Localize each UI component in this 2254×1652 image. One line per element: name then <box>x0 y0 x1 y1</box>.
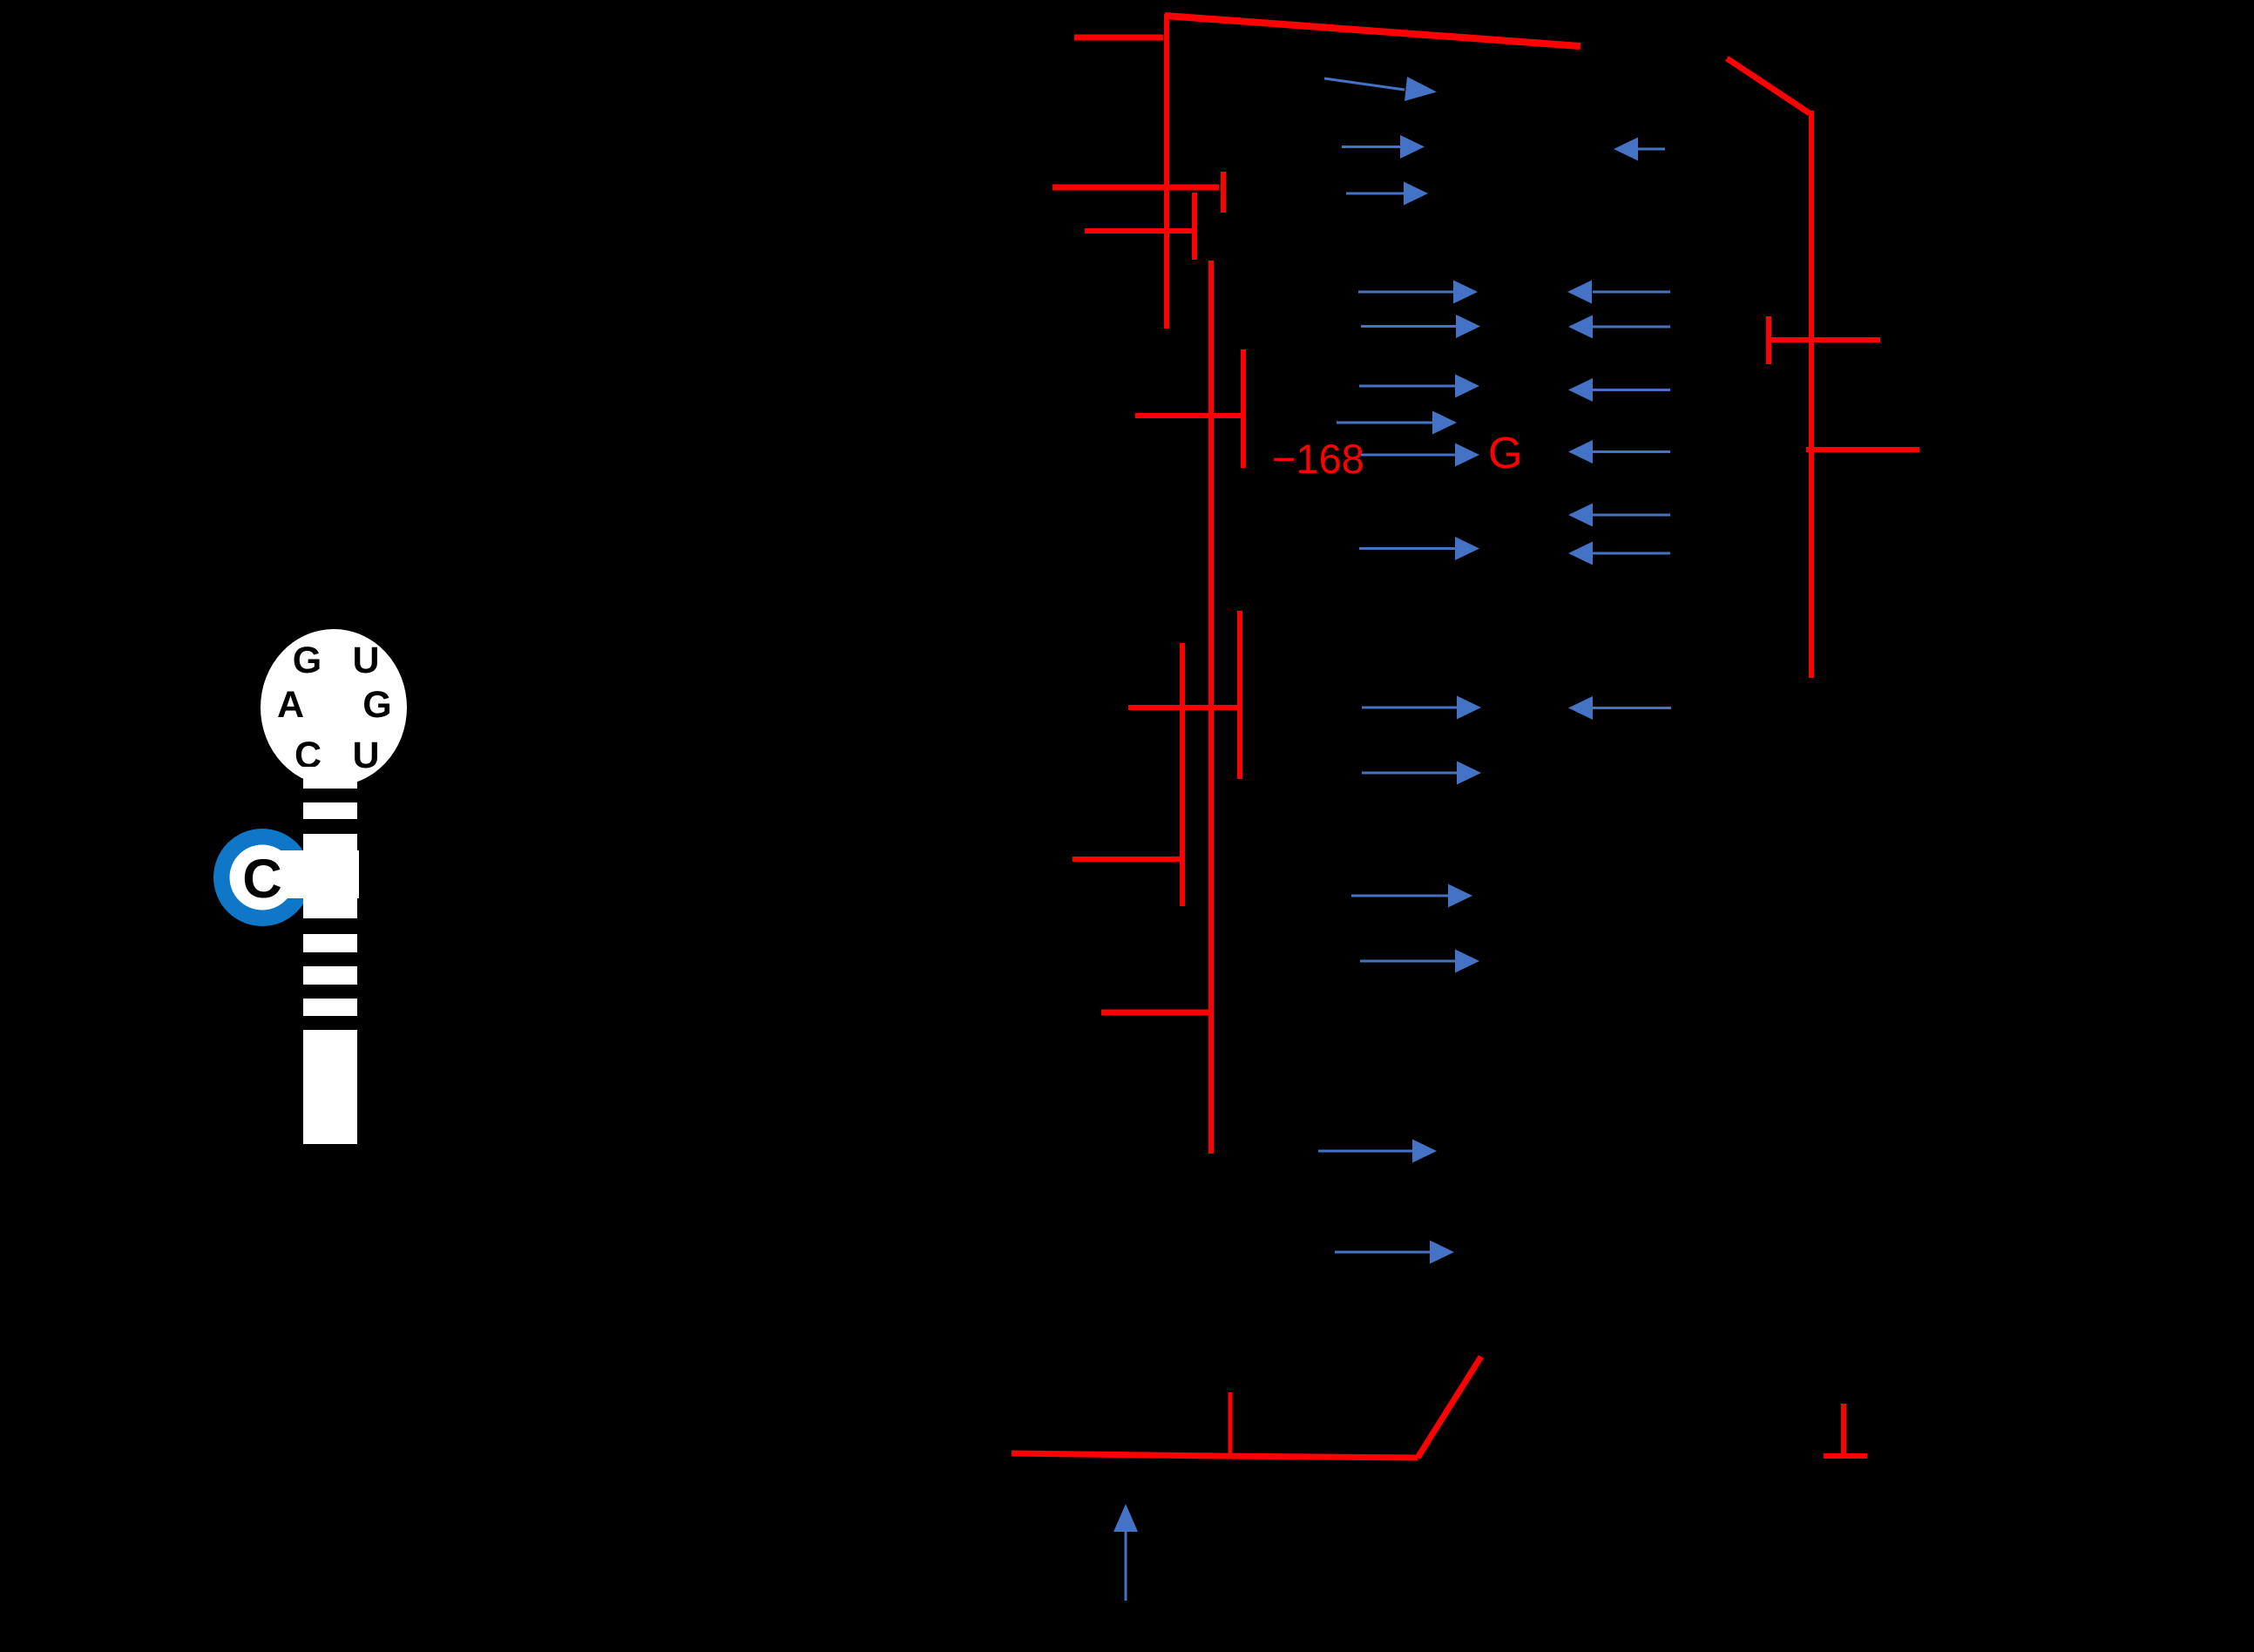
stem rung 4 <box>303 999 357 1016</box>
blue up arrow bottom <box>1113 1504 1138 1601</box>
blue right arrow row y168 <box>1342 135 1425 159</box>
svg-text:C: C <box>242 849 282 910</box>
blue right arrow row y629 <box>1359 537 1479 560</box>
blue left arrow row y375 <box>1568 315 1670 339</box>
blue right arrow row y1321 <box>1318 1140 1437 1163</box>
blue left arrow row y518 <box>1568 440 1670 464</box>
red horizontal crossing at -168 stem <box>1135 413 1244 418</box>
red long horizontal with end tick <box>1053 185 1219 191</box>
stem rung 3 <box>303 966 357 985</box>
blue right arrow row y522 (to G) <box>1361 443 1479 467</box>
red right tick of second vertical <box>1241 349 1246 468</box>
red right upper horizontal <box>1769 337 1880 342</box>
blue right arrow row y812 <box>1362 696 1481 720</box>
red right tick <box>1766 316 1771 364</box>
red horizontal below step <box>1085 228 1195 234</box>
red main vertical (5' side) <box>1164 14 1169 328</box>
ring inner white disc <box>230 845 295 911</box>
blue small left arrow top <box>1614 138 1665 161</box>
ring mouth white notch <box>261 850 359 898</box>
red top-left horizontal segment <box>1074 35 1163 41</box>
red right long vertical <box>1809 111 1814 678</box>
red right diagonal (3' side) <box>1727 58 1810 113</box>
svg-text:U: U <box>352 640 379 681</box>
blue right arrow row y443 <box>1359 375 1479 398</box>
red top slanted line <box>1165 16 1581 46</box>
blue left arrow row y591 <box>1568 504 1670 527</box>
red left tick (long) <box>1180 643 1185 906</box>
blue right arrow row y1437 <box>1335 1241 1454 1264</box>
red short vertical step <box>1192 193 1197 260</box>
svg-text:−168: −168 <box>1272 436 1364 482</box>
red horizontal lower-left <box>1073 856 1182 862</box>
blue right arrow row y335 <box>1358 281 1478 304</box>
blue left arrow row y447 <box>1568 378 1670 402</box>
blue right arrow row y222 <box>1346 182 1428 206</box>
blue right arrow row y374 <box>1361 315 1480 338</box>
red horizontal lower <box>1101 1010 1208 1016</box>
stem rung 1 <box>303 802 357 819</box>
red second long vertical <box>1208 261 1214 1154</box>
blue right arrow row y1103 <box>1360 950 1479 973</box>
red bottom tick <box>1229 1392 1233 1458</box>
red bottom diagonal <box>1418 1357 1481 1458</box>
blue left arrow row y635 <box>1568 542 1670 565</box>
blue right arrow row y485 <box>1337 411 1457 435</box>
red bottom baseline <box>1012 1453 1418 1458</box>
red horizontal mid <box>1128 705 1240 710</box>
svg-text:A: A <box>277 684 304 726</box>
blue right arrow row y887 <box>1362 762 1481 785</box>
svg-text:G: G <box>362 684 391 726</box>
red short vertical right mid <box>1237 611 1242 779</box>
blue ring around C nucleotide <box>213 829 311 926</box>
svg-text:G: G <box>293 640 322 681</box>
red tick at end of long horizontal <box>1221 172 1226 213</box>
stem block 1 <box>303 834 357 918</box>
blue diagonal arrow (top) <box>1324 77 1437 101</box>
blue left arrow row y335 <box>1567 281 1670 304</box>
stem-loop hairpin: loop ellipse <box>261 629 407 786</box>
stem block 2 <box>303 1030 357 1144</box>
blue left arrow row y812 <box>1568 696 1671 720</box>
blue right arrow row y1028 <box>1351 884 1472 908</box>
stem rung 0 (below loop) <box>303 767 357 789</box>
red right lower horizontal <box>1806 447 1919 452</box>
red perpendicular symbol bottom right <box>1841 1404 1846 1458</box>
stem rung 2 <box>303 934 357 952</box>
svg-text:G: G <box>1488 428 1523 477</box>
